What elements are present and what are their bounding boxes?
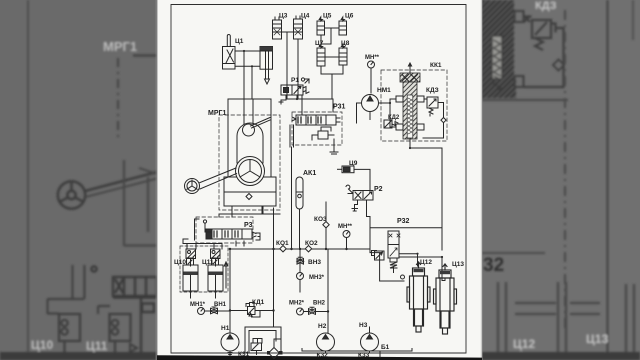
valve Р31 body	[292, 115, 340, 125]
svg-text:Ц10: Ц10	[31, 338, 53, 352]
svg-text:Н2: Н2	[318, 323, 327, 330]
svg-text:К31: К31	[238, 351, 250, 358]
МРГ1 body outline	[228, 99, 271, 177]
backdrop right: lower cylinders (blurred)	[498, 282, 634, 352]
wire Ц9 to P2	[354, 169, 370, 190]
valve Р3 body	[206, 229, 260, 240]
svg-text:Ц12: Ц12	[513, 337, 535, 351]
svg-text:МН**: МН**	[365, 55, 380, 61]
gauge МН** lower	[343, 231, 350, 238]
МРГ1 lower diamond	[246, 194, 252, 200]
wire МН2-ВН2	[304, 249, 329, 333]
backdrop right: block spring chamber (blurred)	[492, 36, 502, 79]
junction dots	[229, 50, 443, 313]
backdrop right: КДЗ valve (blurred)	[524, 16, 564, 87]
check valve КО3	[323, 202, 329, 249]
filter Ф1	[269, 348, 280, 359]
gauge МН3	[297, 273, 304, 280]
tank Б1 line	[302, 349, 412, 358]
wire Р3 upper links	[195, 206, 281, 240]
wire МН1-ВН1	[205, 310, 231, 312]
wire Ц7-Ц8	[325, 56, 339, 58]
accumulator АК1	[296, 177, 303, 209]
wire Р2 down	[367, 200, 371, 228]
svg-text:К32: К32	[317, 352, 329, 359]
backdrop left: shaft line (blurred)	[85, 172, 157, 191]
МРГ1 steering wheel	[236, 157, 265, 186]
gauge МН2	[297, 308, 304, 315]
bottom black band of page	[157, 355, 482, 360]
svg-text:Ц11: Ц11	[86, 339, 108, 353]
Н1 tank enclosure	[245, 327, 281, 353]
wire manifold bottom	[410, 139, 442, 148]
Р31 dashed enclosure	[292, 112, 342, 145]
wire Ц1 links	[235, 51, 260, 66]
wire Ц4 down	[287, 32, 298, 99]
backdrop left: block edge lines (blurred)	[124, 160, 157, 246]
wire ВН3/МН3	[299, 249, 301, 292]
svg-text:Ц13: Ц13	[586, 332, 608, 346]
relief valve К31 unit	[251, 339, 262, 355]
svg-text:МН2*: МН2*	[289, 301, 305, 307]
pump Н2	[317, 333, 335, 351]
svg-text:КО2: КО2	[305, 240, 318, 247]
КК1 port bottom-left	[396, 124, 403, 130]
wire lock valves to cylinders	[191, 259, 216, 267]
backdrop left: bottom dark band (blurred)	[0, 352, 157, 360]
КК1 hatched manifold cap	[400, 73, 420, 82]
wire side arrow line	[224, 262, 228, 288]
КК1 port top-left	[396, 96, 403, 102]
svg-text:КК1: КК1	[430, 62, 442, 69]
backdrop left: lock valve Ц11 (blurred)	[110, 314, 131, 356]
backdrop left: vertical wire (blurred)	[27, 0, 29, 360]
Р32 pilot valve	[372, 251, 385, 261]
valve КД2	[384, 120, 398, 128]
pump Н3	[361, 333, 379, 351]
cylinder Ц13	[434, 264, 457, 334]
КК1 dashed enclosure	[381, 70, 447, 141]
wire МН** to НМ1	[370, 68, 372, 93]
backdrop right: hatched block (blurred)	[481, 0, 514, 80]
backdrop right: box bottom line (blurred)	[482, 99, 568, 101]
svg-text:КДЗ: КДЗ	[426, 87, 439, 94]
valve Р32 body	[388, 231, 405, 279]
page left soft edge	[156, 0, 159, 360]
wire Н1 suction	[228, 339, 281, 356]
Р31 pilot valve	[312, 127, 334, 140]
valve ВН2	[309, 307, 316, 314]
wire Р3 to lock valves	[183, 239, 222, 249]
Р3 dashed enclosure	[196, 217, 253, 243]
wire МРГ1 down-left	[232, 206, 262, 217]
svg-text:Ц12: Ц12	[420, 259, 432, 266]
КК1 hatched manifold column	[403, 82, 417, 139]
backdrop left: wires (blurred)	[48, 265, 138, 352]
МРГ1 dashed enclosure	[219, 115, 280, 210]
svg-text:Ц4: Ц4	[301, 13, 310, 20]
МРГ1 handwheel	[185, 179, 200, 194]
svg-text:Р2: Р2	[374, 186, 383, 193]
pump Н1	[221, 333, 239, 351]
valve P1 body	[281, 79, 309, 95]
wire main pressure line	[229, 238, 370, 250]
svg-text:КДЗ: КДЗ	[535, 0, 557, 12]
backdrop right: bottom dark band (blurred)	[481, 352, 640, 360]
valve ВН3	[297, 257, 304, 264]
svg-text:Р3: Р3	[244, 222, 253, 229]
svg-text:К33: К33	[358, 352, 370, 359]
wire АК1 down	[299, 209, 301, 249]
wire Н2 Н3 risers	[326, 327, 370, 352]
svg-text:Р31: Р31	[333, 104, 346, 111]
backdrop left: lock valve Ц10 (blurred)	[59, 314, 80, 356]
svg-text:Б1: Б1	[381, 344, 390, 351]
check valve КО1	[280, 246, 286, 252]
Р3 pilot	[205, 223, 212, 232]
pump НМ1	[357, 95, 379, 124]
svg-text:Ц1: Ц1	[235, 38, 244, 45]
МРГ1 inner bell	[237, 123, 263, 163]
svg-text:МН3*: МН3*	[309, 275, 325, 281]
P1 pilot circle	[301, 78, 304, 81]
МРГ1 shaft	[199, 168, 237, 189]
backdrop right band	[481, 0, 640, 360]
КК1 port bottom-right	[417, 124, 424, 130]
valve ВН1	[211, 307, 218, 314]
page background	[157, 0, 482, 360]
wire НМ1 to manifold	[379, 99, 397, 127]
svg-text:МРГ1: МРГ1	[208, 110, 226, 117]
valve Р2	[346, 185, 373, 200]
gauge МН1	[198, 308, 205, 315]
wire Р31 down	[290, 125, 294, 249]
backdrop left: Р3 valve (blurred)	[91, 266, 157, 352]
cylinder Ц3	[273, 17, 282, 39]
pilot check valve Ц11a	[211, 249, 221, 259]
schematic frame border	[171, 5, 466, 354]
component Ц9	[338, 166, 355, 173]
cylinder Ц8	[339, 44, 347, 65]
wire Ц5 down to Ц7	[321, 28, 331, 44]
cylinder Ц10	[183, 258, 198, 298]
svg-text:32: 32	[483, 255, 504, 276]
svg-text:МРГ1: МРГ1	[103, 39, 137, 54]
wire Р2 drain	[352, 200, 358, 211]
cylinder Ц1b	[260, 47, 273, 85]
backdrop right: long vertical wire (blurred)	[606, 0, 609, 360]
svg-text:Ц13: Ц13	[452, 261, 464, 268]
cylinder Ц4	[294, 16, 303, 43]
cylinder Ц12	[407, 262, 430, 332]
svg-text:Ц5: Ц5	[323, 13, 332, 20]
wire cylinders riser	[236, 241, 244, 246]
cylinder Ц7	[317, 44, 325, 70]
svg-text:МН1*: МН1*	[190, 302, 206, 308]
wire P1 to P31	[297, 95, 333, 115]
svg-text:ВН3: ВН3	[308, 259, 321, 266]
svg-text:Р32: Р32	[397, 218, 410, 225]
Р32 enclosure	[370, 228, 442, 281]
valve КД1	[246, 303, 260, 318]
wire КД1 line	[230, 208, 274, 333]
МРГ1 lower block	[224, 177, 276, 206]
wire Ц1 to МРГ1	[244, 51, 252, 99]
backdrop right: diamond symbol (blurred)	[553, 60, 564, 71]
gauge МН**	[368, 61, 375, 68]
Ц10/Ц11 dashed enclosure	[180, 246, 228, 292]
svg-text:Р1: Р1	[291, 77, 299, 84]
backdrop right: dash-dot box edge (blurred)	[564, 10, 566, 332]
cylinder Ц5	[317, 17, 325, 35]
svg-text:Н1: Н1	[221, 325, 230, 332]
backdrop left band	[0, 0, 157, 360]
wire Р32 to Ц12	[399, 254, 445, 281]
backdrop left: handwheel circle (blurred)	[58, 181, 85, 208]
cylinder Ц1	[223, 35, 236, 70]
МРГ1 lever	[251, 118, 271, 129]
backdrop right: short vertical wire (blurred)	[632, 0, 635, 40]
МРГ1 inner top circle	[243, 124, 255, 136]
svg-text:ВН2: ВН2	[313, 301, 326, 307]
cylinder Ц11	[208, 258, 223, 298]
page right soft edge	[481, 0, 483, 360]
wire Ц5-Ц6	[325, 27, 340, 29]
КК1 column inner spring chamber	[407, 95, 413, 138]
wire Р31 drain right	[330, 139, 338, 154]
svg-text:АК1: АК1	[303, 170, 316, 177]
wire Ц7 down	[321, 65, 343, 99]
backdrop left: МРГ1 dashed frame (blurred)	[133, 54, 157, 57]
svg-text:Н3: Н3	[359, 322, 368, 329]
valve КДЗ	[423, 97, 446, 138]
backdrop right: line under Ц32 (blurred)	[481, 252, 545, 254]
svg-text:Ц6: Ц6	[345, 13, 354, 20]
pilot check valve Ц10a	[186, 249, 196, 259]
wire into МРГ1	[244, 99, 253, 124]
КК1 port top-right	[417, 96, 424, 102]
junction dot	[416, 253, 418, 255]
wire Ц3-Ц4	[282, 31, 294, 33]
cylinder Ц6	[339, 17, 347, 35]
check valve КО2	[305, 246, 311, 252]
svg-text:МН**: МН**	[338, 224, 353, 230]
svg-text:НМ1: НМ1	[377, 87, 391, 94]
backdrop right: port tabs (blurred)	[515, 11, 524, 87]
wire КК1 down	[441, 148, 443, 228]
svg-text:Ц3: Ц3	[279, 13, 288, 20]
wire P1 drain	[279, 95, 286, 104]
